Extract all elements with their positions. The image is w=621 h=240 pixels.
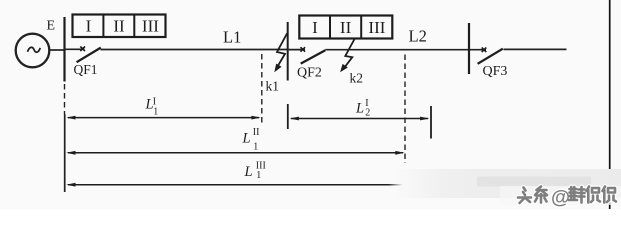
- breaker QF2 cross mark: [301, 47, 306, 52]
- svg-text:I: I: [86, 17, 92, 36]
- wire bus1 to QF1 hinge: [65, 48, 85, 50]
- svg-text:QF2: QF2: [297, 66, 322, 81]
- svg-text:QF1: QF1: [74, 62, 98, 77]
- svg-text:L: L: [355, 101, 364, 117]
- breaker QF2 blade: [301, 50, 326, 63]
- svg-text:1: 1: [153, 107, 158, 118]
- extension line below bus 1 (dashed then solid): [64, 84, 66, 114]
- dimension tick at bus 2: [287, 104, 289, 129]
- svg-text:1: 1: [253, 142, 258, 153]
- label L1^III: [244, 161, 266, 181]
- svg-text:L1: L1: [223, 28, 241, 47]
- dimension arrow L1^II: [66, 151, 404, 155]
- svg-text:2: 2: [365, 108, 370, 119]
- svg-text:1: 1: [256, 170, 261, 181]
- svg-text:III: III: [142, 17, 159, 36]
- svg-text:k1: k1: [266, 79, 280, 94]
- label L2^I: [355, 98, 370, 119]
- wire line L1: [101, 49, 288, 51]
- protection set 2 boxes I II III: [299, 16, 392, 39]
- svg-text:II: II: [340, 18, 352, 37]
- svg-text:L: L: [242, 130, 251, 146]
- dimension arrow L1^I: [66, 116, 261, 120]
- glyph kan 2: [603, 187, 617, 203]
- extension line end of zone II (dashed): [404, 55, 406, 164]
- label L1^I: [145, 97, 159, 118]
- glyph tiao: [535, 187, 547, 203]
- dimension tick end of L2 zone I: [430, 106, 432, 139]
- bus 3: [468, 23, 470, 74]
- wire after QF3: [504, 48, 567, 50]
- svg-text:L: L: [244, 164, 253, 180]
- svg-text:II: II: [113, 17, 125, 36]
- fault k1 lightning arrow: [277, 33, 287, 66]
- svg-text:E: E: [47, 19, 56, 34]
- extension line at k1 (dashed): [261, 54, 263, 125]
- svg-text:L2: L2: [409, 27, 427, 46]
- svg-text:II: II: [253, 127, 260, 138]
- wire bus3 to QF3 hinge: [469, 49, 486, 51]
- breaker QF3 blade: [478, 49, 503, 64]
- wire generator to bus 1: [49, 49, 64, 51]
- watermark text 头条@韩侃侃 (drawn strokes): [518, 187, 616, 204]
- protection set 1 boxes I II III: [73, 15, 166, 38]
- bus 2: [287, 22, 289, 81]
- breaker QF3 cross mark: [482, 48, 487, 53]
- wire bus2 to QF2 hinge: [288, 49, 305, 51]
- svg-text:I: I: [312, 18, 318, 37]
- glyph tou: [518, 188, 531, 204]
- bus 1: [63, 17, 65, 82]
- dimension arrow L2^I: [290, 117, 430, 121]
- svg-text:@: @: [551, 187, 570, 209]
- glyph han: [569, 187, 585, 203]
- right border line: [609, 0, 611, 209]
- fault k2 lightning arrow: [344, 39, 354, 68]
- wire line L2: [325, 49, 469, 51]
- svg-text:III: III: [368, 18, 385, 37]
- generator G (source): [16, 34, 50, 68]
- label L1^II: [242, 127, 260, 153]
- breaker QF1 blade: [77, 48, 101, 63]
- breaker QF1 cross mark: [80, 47, 85, 52]
- svg-text:QF3: QF3: [483, 64, 508, 79]
- glyph kan 1: [587, 187, 601, 203]
- svg-text:k2: k2: [350, 70, 364, 85]
